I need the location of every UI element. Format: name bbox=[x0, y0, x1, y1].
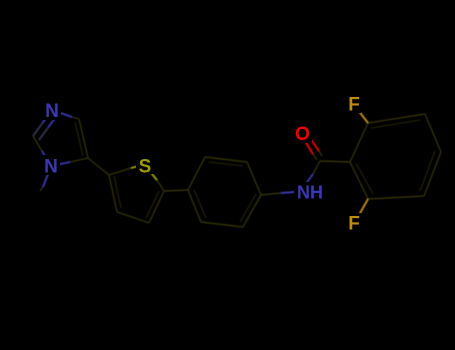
svg-text:S: S bbox=[139, 156, 152, 177]
svg-text:N: N bbox=[45, 101, 59, 122]
svg-text:O: O bbox=[295, 124, 310, 145]
svg-text:NH: NH bbox=[297, 183, 323, 203]
svg-text:F: F bbox=[348, 95, 360, 116]
svg-text:N: N bbox=[44, 157, 58, 178]
svg-text:F: F bbox=[348, 214, 360, 235]
